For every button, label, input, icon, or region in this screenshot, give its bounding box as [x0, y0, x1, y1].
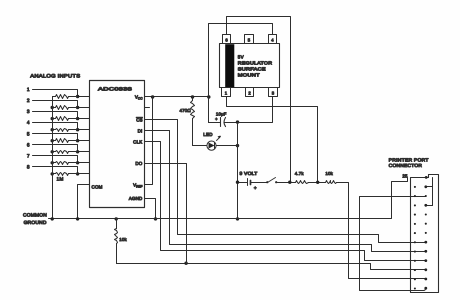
- junction R9 470 on VCC rail: [191, 95, 194, 98]
- junction input 8 / resistor R8: [76, 172, 79, 175]
- junction divider node (pin1): [316, 181, 319, 184]
- LED D1 diode triangle: [209, 143, 215, 149]
- wire CLK to connector: [145, 142, 426, 261]
- battery B1 short plate: [250, 181, 252, 185]
- resistor R9 470 ohm: [192, 97, 194, 101]
- svg-text:5V: 5V: [238, 55, 244, 60]
- wire battery to switch S1: [251, 182, 268, 184]
- op-amp/IC U1 ADC0838 body: [90, 81, 145, 208]
- wire input 8 to chip (jog at x=77.6): [33, 167, 90, 174]
- wire jumper connector pin row 2 to bottom right pin: [360, 197, 426, 291]
- svg-text:ADC0838: ADC0838: [98, 86, 132, 91]
- wire R10 to divider node: [309, 182, 326, 184]
- ground rail / wire to connector top: [49, 178, 408, 219]
- resistor R3 1M: [53, 118, 56, 120]
- resistor R8 1M: [53, 173, 56, 175]
- wire input 7 to chip (jog at x=77.6): [33, 156, 90, 163]
- wire regulator pin 6 to battery node: [227, 17, 291, 183]
- wire R12 bottom / DO line to connector: [117, 264, 426, 270]
- wire switch to regulator-input node: [277, 182, 296, 184]
- junction R8 left end on ground bus: [51, 172, 54, 175]
- junction R11 wire at connector pin: [424, 278, 427, 281]
- switch S1 blade: [268, 178, 276, 183]
- switch S1 right contact: [275, 181, 277, 183]
- junction input 7 / resistor R7: [76, 161, 79, 164]
- regulator U2 pin 5 box: [245, 35, 254, 44]
- wire input 5 to chip (jog at x=77.6): [33, 134, 90, 141]
- capacitor C1 wire right: [225, 122, 238, 124]
- wire R9 to LED D1: [193, 145, 207, 147]
- svg-text:25: 25: [402, 174, 408, 179]
- wire DI to connector: [145, 131, 426, 252]
- wire ground riser to battery B1: [238, 182, 248, 184]
- wire regulator pin4 to VCC rail / C1 (riser x=208.8): [209, 24, 273, 123]
- wire CS to connector: [145, 120, 426, 243]
- pin stub SE (unlabeled): [145, 107, 150, 109]
- svg-text:6: 6: [27, 142, 30, 148]
- wire 1M ground bus: [52, 97, 54, 219]
- svg-text:DI: DI: [138, 128, 143, 133]
- svg-text:CS: CS: [136, 117, 142, 122]
- svg-text:8: 8: [27, 165, 30, 171]
- regulator U2 pin 2 box: [246, 88, 254, 97]
- junction input 2 / resistor R2: [76, 106, 79, 109]
- junction CS wire at connector pin: [424, 241, 427, 244]
- svg-text:COM: COM: [92, 184, 103, 189]
- svg-text:5: 5: [27, 131, 30, 137]
- battery B1 long plate: [247, 179, 249, 186]
- svg-text:SURFACE: SURFACE: [238, 67, 266, 72]
- svg-text:3: 3: [27, 109, 30, 115]
- svg-text:10k: 10k: [119, 237, 127, 242]
- junction R6 left end on ground bus: [51, 150, 54, 153]
- svg-text:7: 7: [27, 153, 30, 159]
- connector J1 left pin column: [414, 186, 416, 290]
- regulator U2 pin 4 box: [269, 35, 277, 44]
- resistor R10 4.7k: [296, 181, 309, 184]
- resistor R1 1M: [53, 96, 56, 98]
- svg-text:ANALOG INPUTS: ANALOG INPUTS: [30, 74, 81, 80]
- wire R11 to connector (down at x=348.7): [337, 183, 426, 279]
- svg-text:9 VOLT: 9 VOLT: [240, 171, 258, 176]
- wire LED to ground riser: [217, 145, 238, 147]
- junction R12 on ground rail: [115, 217, 118, 220]
- resistor R12 10k pulldown: [116, 219, 118, 229]
- svg-text:470Ω: 470Ω: [180, 108, 192, 113]
- junction 1M bus on ground rail: [51, 217, 54, 220]
- svg-text:4.7k: 4.7k: [295, 171, 305, 176]
- junction VREF riser on VCC rail: [151, 95, 154, 98]
- svg-text:1M: 1M: [57, 177, 64, 183]
- capacitor C1 wire left: [209, 122, 221, 124]
- resistor R11 10k: [326, 181, 337, 184]
- junction input 5 / resistor R5: [76, 139, 79, 142]
- regulator U2 pin 6 box: [223, 35, 231, 44]
- junction R3 left end on ground bus: [51, 117, 54, 120]
- junction pin on connector top edge: [425, 176, 428, 179]
- regulator U2 body: [220, 44, 280, 88]
- wire VREF to VCC rail: [145, 97, 153, 185]
- switch S1 left contact: [266, 181, 268, 183]
- junction bus tick pin a: [424, 185, 427, 188]
- wire input 4 to chip (jog at x=77.6): [33, 123, 90, 130]
- LED D1 cathode bar: [214, 143, 216, 149]
- wire input 6 to chip (jog at x=77.6): [33, 145, 90, 152]
- wire regulator pin 1 to divider node: [227, 97, 318, 183]
- junction jumper at connector pin: [424, 287, 427, 290]
- junction input 4 / resistor R4: [76, 128, 79, 131]
- svg-text:MOUNT: MOUNT: [238, 72, 260, 77]
- junction bus tick pin b: [424, 204, 427, 207]
- junction LED line / ground riser: [236, 144, 239, 147]
- wire DO from chip down to R12 line: [145, 164, 187, 264]
- svg-text:2: 2: [27, 98, 30, 104]
- junction COM on ground rail: [76, 217, 79, 220]
- connector J1 body: [411, 175, 439, 293]
- capacitor C1 plus plate: [220, 118, 222, 127]
- svg-text:10k: 10k: [325, 171, 333, 176]
- svg-text:CLK: CLK: [133, 139, 142, 144]
- junction ground riser on ground rail: [236, 217, 239, 220]
- wire input 3 to chip (jog at x=77.6): [33, 112, 90, 119]
- svg-text:+: +: [254, 186, 257, 192]
- svg-text:COMMON: COMMON: [23, 212, 47, 217]
- regulator U2 pin 1 box: [222, 88, 231, 97]
- wire ground riser (C1/LED/battery to ground rail): [237, 123, 239, 219]
- svg-text:1: 1: [27, 87, 30, 93]
- svg-text:GROUND: GROUND: [24, 220, 47, 225]
- junction CLK wire at connector pin: [424, 259, 427, 262]
- svg-text:4: 4: [27, 120, 30, 126]
- svg-text:LED: LED: [203, 132, 213, 137]
- resistor R7 1M: [53, 162, 56, 164]
- svg-text:AGND: AGND: [129, 196, 143, 201]
- junction input 3 / resistor R3: [76, 117, 79, 120]
- junction DI wire at connector pin: [424, 250, 427, 253]
- resistor R4 1M: [53, 129, 56, 131]
- svg-text:REGULATOR: REGULATOR: [238, 61, 273, 66]
- LED D1 emission arrow: [217, 137, 221, 141]
- regulator U2 tab bar: [225, 44, 234, 87]
- resistor R2 1M: [53, 107, 56, 109]
- junction C1 line / ground riser: [236, 120, 239, 123]
- resistor R6 1M: [53, 151, 56, 153]
- regulator U2 pin 3 box: [269, 88, 278, 97]
- junction R2 left end on ground bus: [51, 106, 54, 109]
- capacitor C1 curved plate: [224, 118, 226, 127]
- junction battery line on ground riser: [236, 181, 239, 184]
- resistor R5 1M: [53, 140, 56, 142]
- wire C1 line to regulator pin 3: [238, 97, 273, 123]
- junction R5 left end on ground bus: [51, 139, 54, 142]
- junction DO on R12 line: [184, 262, 187, 265]
- svg-text:DO: DO: [135, 161, 142, 166]
- junction VCC rail / regulator output riser: [207, 95, 210, 98]
- wire connector right-side ground bus: [432, 178, 434, 206]
- junction R4 left end on ground bus: [51, 128, 54, 131]
- wire input 2 to chip (jog at x=77.6): [33, 101, 90, 108]
- LED D1 circle: [207, 141, 216, 150]
- junction R7 left end on ground bus: [51, 161, 54, 164]
- wire COM to ground rail: [78, 185, 90, 219]
- junction input 6 / resistor R6: [76, 150, 79, 153]
- junction DO wire at connector pin: [424, 268, 427, 271]
- wire VCC rail from U1 to C1 branch: [145, 96, 209, 98]
- junction input 1 / resistor R1: [76, 95, 79, 98]
- svg-text:+: +: [215, 117, 218, 122]
- wire input 1 to chip (jog at x=77.6): [33, 90, 90, 97]
- junction AGND on ground rail: [154, 217, 157, 220]
- connector J1 right pin column: [425, 186, 427, 290]
- junction regulator pin6 node: [288, 181, 291, 184]
- svg-text:CONNECTOR: CONNECTOR: [389, 163, 423, 168]
- wire AGND to ground rail: [145, 199, 156, 219]
